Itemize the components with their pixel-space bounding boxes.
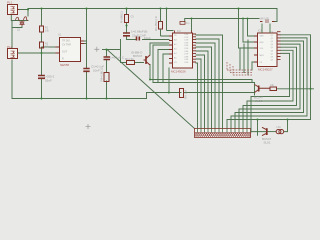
svg-text:PL1: PL1 <box>7 1 13 5</box>
svg-text:CV THR: CV THR <box>62 44 71 47</box>
svg-text:D3E: D3E <box>185 42 190 44</box>
svg-text:55uF: 55uF <box>45 79 52 83</box>
svg-text:1m: 1m <box>186 22 189 25</box>
svg-text:PL2: PL2 <box>7 45 13 49</box>
svg-text:LS1: LS1 <box>277 126 282 129</box>
svg-text:SLO1: SLO1 <box>255 99 263 103</box>
svg-text:D9E: D9E <box>185 59 190 61</box>
svg-text:D7E: D7E <box>185 54 190 56</box>
svg-text:R-680(1): R-680(1) <box>120 11 124 23</box>
svg-text:TR DIS: TR DIS <box>62 40 70 43</box>
svg-text:MC145026: MC145026 <box>171 70 186 74</box>
svg-text:BC547: BC547 <box>133 54 143 58</box>
svg-text:SL01: SL01 <box>264 141 271 145</box>
svg-text:R3-05(1)-0: R3-05(1)-0 <box>154 16 158 31</box>
svg-text:IC3: IC3 <box>258 30 262 33</box>
svg-text:R6 1M: R6 1M <box>184 90 188 99</box>
svg-text:D5E: D5E <box>185 48 190 50</box>
svg-text:MC145027: MC145027 <box>258 68 273 72</box>
svg-text:VAR: VAR <box>260 35 265 38</box>
svg-text:1M 0.001: 1M 0.001 <box>260 18 271 21</box>
svg-text:D0E: D0E <box>185 34 190 36</box>
svg-text:IC2: IC2 <box>177 30 181 33</box>
svg-text:D2E: D2E <box>185 40 190 42</box>
svg-text:R: R <box>62 58 64 61</box>
svg-text:1=0.1uF C: 1=0.1uF C <box>110 56 125 60</box>
svg-text:NE555: NE555 <box>60 63 70 67</box>
svg-text:ADD: ADD <box>260 41 265 44</box>
svg-text:MEX: MEX <box>260 55 265 57</box>
svg-text:10uF: 10uF <box>144 36 151 40</box>
svg-text:D6E: D6E <box>185 51 190 53</box>
svg-text:D8E: D8E <box>185 56 190 58</box>
svg-text:D4E: D4E <box>185 45 190 47</box>
svg-text:R4=1M(1): R4=1M(1) <box>100 68 104 81</box>
svg-text:OUT: OUT <box>62 51 68 54</box>
svg-text:D0E: D0E <box>185 62 190 64</box>
svg-text:D1E: D1E <box>185 37 190 39</box>
